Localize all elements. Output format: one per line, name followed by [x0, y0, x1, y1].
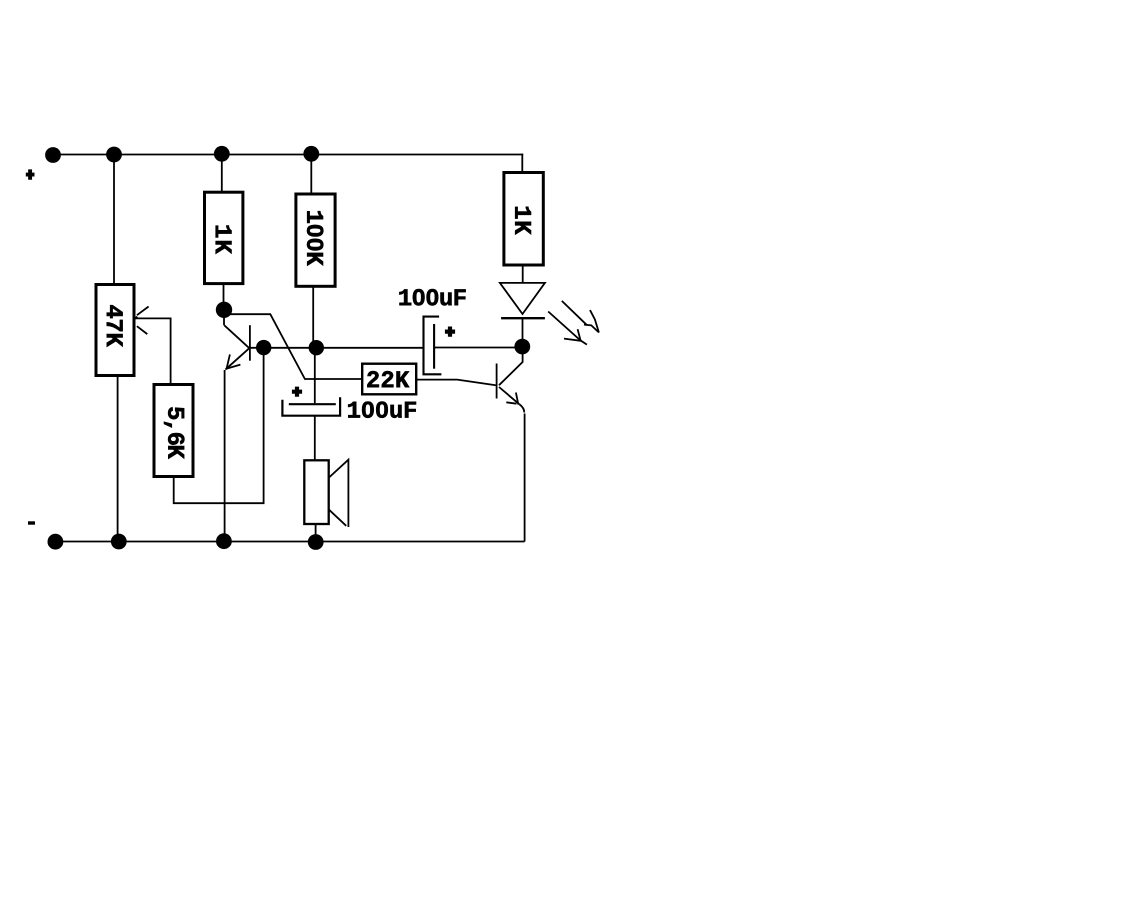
speaker LS1	[304, 460, 348, 527]
node dot bottom rail 1	[48, 534, 64, 550]
node dot top rail 3	[214, 146, 230, 162]
node dot Q1 collector	[216, 302, 232, 318]
node - terminal label	[28, 521, 35, 524]
transistor Q1	[224, 317, 250, 370]
wire Q1 emitter to bottom rail	[224, 370, 226, 542]
wire Q2 emitter to bottom rail	[524, 414, 526, 542]
wire LED to node	[522, 318, 524, 341]
capacitor C1 100uF (coupling, vertical plates)	[399, 289, 465, 374]
node dot bottom rail 2	[111, 534, 127, 550]
wire 22K to Q2 base	[417, 380, 497, 386]
LED D1	[500, 283, 545, 318]
resistor 47K	[96, 285, 134, 376]
resistor 5,6K	[154, 385, 193, 477]
wire main mid-left	[250, 347, 423, 349]
node dot mid rail B	[309, 340, 324, 355]
wire 100K top	[310, 155, 312, 195]
wire 47K bottom	[117, 376, 119, 542]
node dot mid rail A	[256, 340, 271, 355]
resistor 22K	[362, 364, 416, 395]
potentiometer wiper arrow of 47K	[135, 307, 171, 386]
node dot bottom rail 4	[308, 534, 324, 550]
node + terminal label	[26, 169, 35, 179]
wire 5,6K bottom to node A	[174, 348, 264, 504]
wire speaker to bottom rail	[315, 524, 317, 542]
node dot LED cathode	[514, 339, 530, 355]
wire 100K bottom	[312, 286, 314, 348]
wire 1K right to LED	[522, 265, 524, 283]
transistor Q2	[497, 353, 525, 413]
wire bottom negative rail	[48, 541, 525, 543]
node dot top rail 4	[303, 146, 319, 162]
resistor 1K left	[205, 192, 243, 283]
capacitor C2 100uF (electrolytic, horizontal plates)	[282, 348, 416, 418]
wire cap to speaker	[314, 416, 316, 460]
LED light emission arrows	[548, 301, 599, 345]
node dot top rail 1	[45, 147, 61, 163]
wire 1K left top	[221, 155, 223, 193]
resistor 1K right	[504, 173, 543, 266]
wire 1K left bottom	[223, 284, 225, 306]
wire main mid-right	[434, 347, 522, 349]
wire 47K top	[113, 155, 115, 285]
wire Q1 node to 22K diagonal	[228, 314, 362, 379]
node dot bottom rail 3	[216, 533, 232, 549]
wire top positive rail	[46, 154, 523, 156]
wire right drop to 1K	[521, 154, 523, 173]
resistor 100K	[296, 194, 335, 286]
node dot top rail 2	[106, 147, 122, 163]
